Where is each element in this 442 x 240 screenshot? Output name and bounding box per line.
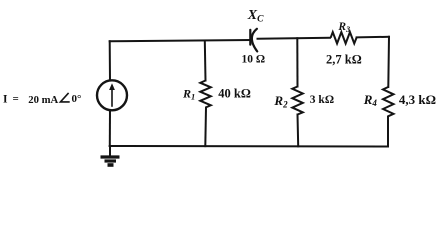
wire: right vertical lower (387, 117, 389, 147)
capacitor XC (curved plate style) (250, 29, 257, 52)
svg-text:20 mA: 20 mA (28, 94, 58, 106)
svg-text:10 Ω: 10 Ω (242, 54, 266, 66)
current source I (circle with up arrow) (97, 80, 127, 110)
svg-text:=: = (13, 93, 19, 105)
svg-text:3 kΩ: 3 kΩ (310, 94, 334, 106)
wire: top rail left segment (110, 40, 251, 41)
wire: R1 bottom stem (204, 108, 207, 147)
wire: R1 top stem (204, 41, 207, 81)
wire: top rail middle segment (cap to R3) (258, 37, 331, 40)
wire: R2 bottom stem (297, 115, 300, 147)
svg-text:0°: 0° (72, 93, 82, 105)
resistor R3 (horizontal zigzag) (331, 32, 357, 43)
svg-text:4,3 kΩ: 4,3 kΩ (399, 92, 436, 107)
svg-text:I: I (3, 94, 8, 106)
wire: top rail right segment (R3 to corner) (357, 36, 389, 39)
wire: bottom rail (110, 145, 388, 148)
wire: right vertical upper (387, 37, 390, 87)
svg-text:40 kΩ: 40 kΩ (218, 86, 251, 100)
resistor R1 (vertical zigzag) (200, 81, 211, 108)
label: I = 20 mA angle 0deg (3, 93, 81, 106)
resistor R4 (vertical zigzag) (383, 87, 394, 116)
wire: R2 top stem (296, 38, 298, 86)
svg-text:2,7 kΩ: 2,7 kΩ (326, 53, 362, 67)
ground (101, 146, 120, 165)
wire: left vertical lower (source bottom to bottom rail) (109, 110, 111, 146)
resistor R2 (vertical zigzag) (292, 87, 303, 115)
wire: left vertical upper (source top to top rail) (109, 41, 111, 80)
